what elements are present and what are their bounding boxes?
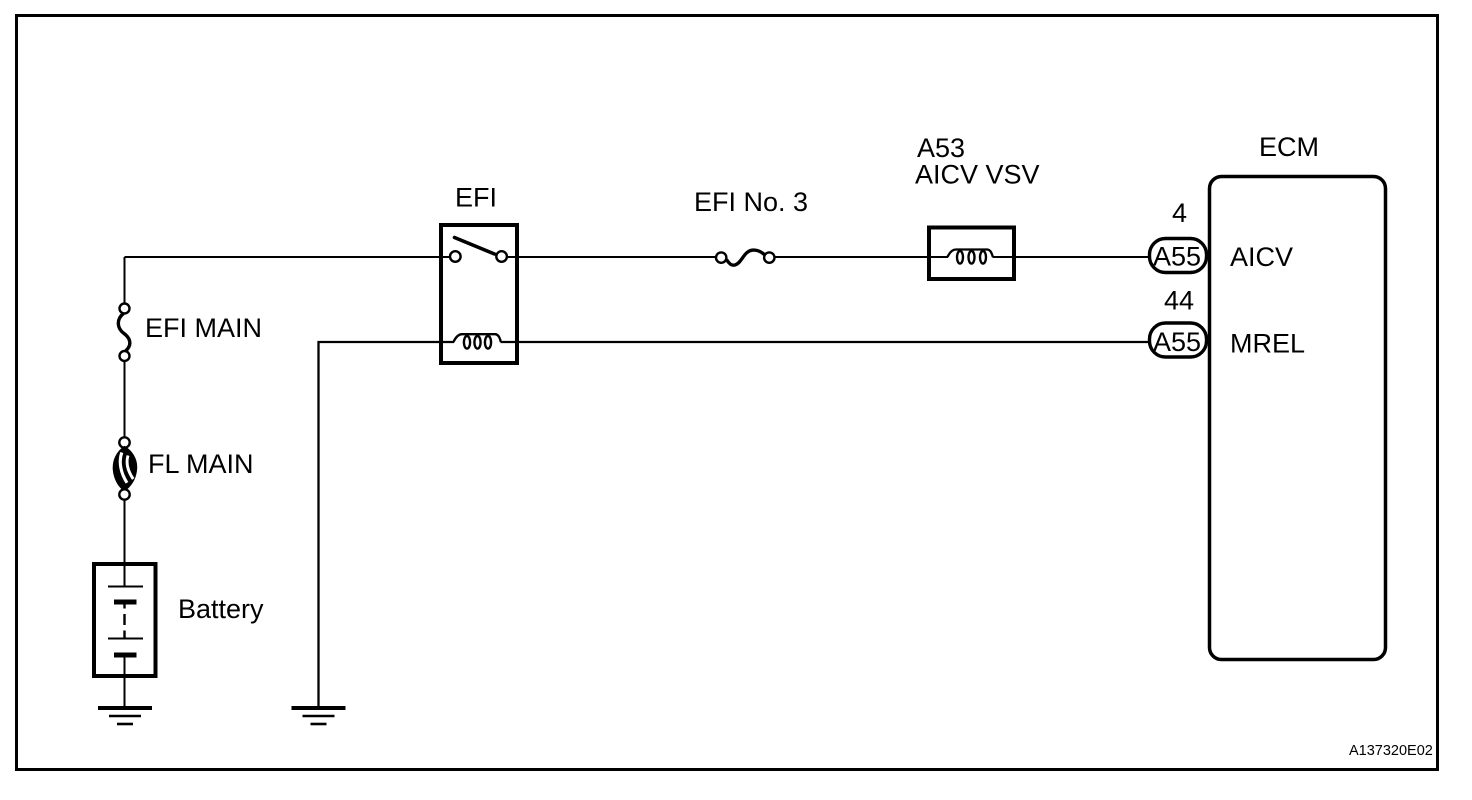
wire: EFI relay switch to EFI No.3 fuse bbox=[507, 256, 716, 258]
relay coil bbox=[454, 334, 501, 348]
svg-text:AICV: AICV bbox=[1230, 242, 1293, 272]
wire: EFI No.3 fuse to A53 VSV box bbox=[775, 256, 948, 258]
svg-text:A55: A55 bbox=[1153, 242, 1201, 272]
relay EFI box bbox=[441, 225, 517, 363]
wire: left vertical battery column bbox=[124, 257, 126, 304]
wire: EFI coil to A55 MREL connector bbox=[501, 341, 1153, 343]
svg-text:FL MAIN: FL MAIN bbox=[148, 449, 254, 479]
svg-text:A53: A53 bbox=[917, 133, 965, 163]
svg-text:AICV VSV: AICV VSV bbox=[915, 160, 1040, 190]
ground (battery) bbox=[98, 708, 152, 724]
svg-text:Battery: Battery bbox=[178, 594, 264, 624]
connector A55 pin 4 (AICV) bbox=[1150, 239, 1207, 273]
wire: lower MREL bus: ground riser to EFI coil bbox=[319, 342, 455, 706]
svg-text:A137320E02: A137320E02 bbox=[1349, 743, 1433, 759]
svg-text:ECM: ECM bbox=[1259, 132, 1319, 162]
ECM box bbox=[1210, 177, 1386, 660]
battery bbox=[94, 564, 156, 706]
fuse EFI No. 3 bbox=[716, 250, 775, 265]
fusible link FL MAIN bbox=[113, 437, 136, 499]
wire: top bus from battery column to EFI relay switch bbox=[125, 256, 451, 258]
svg-text:EFI: EFI bbox=[455, 183, 497, 213]
wire: A53 VSV box to A55 AICV connector bbox=[993, 256, 1153, 258]
VSV coil bbox=[948, 250, 993, 264]
connector A55 pin 44 (MREL) bbox=[1150, 323, 1207, 357]
svg-text:EFI No. 3: EFI No. 3 bbox=[694, 187, 808, 217]
svg-text:EFI MAIN: EFI MAIN bbox=[145, 313, 262, 343]
svg-text:A55: A55 bbox=[1153, 327, 1201, 357]
svg-text:44: 44 bbox=[1164, 286, 1194, 316]
ground (MREL riser) bbox=[292, 708, 346, 724]
svg-text:4: 4 bbox=[1172, 198, 1187, 228]
relay switch contacts bbox=[450, 238, 507, 262]
svg-text:MREL: MREL bbox=[1230, 329, 1305, 359]
VSV A53 box bbox=[929, 228, 1014, 280]
EFI MAIN fuse bbox=[118, 304, 130, 362]
